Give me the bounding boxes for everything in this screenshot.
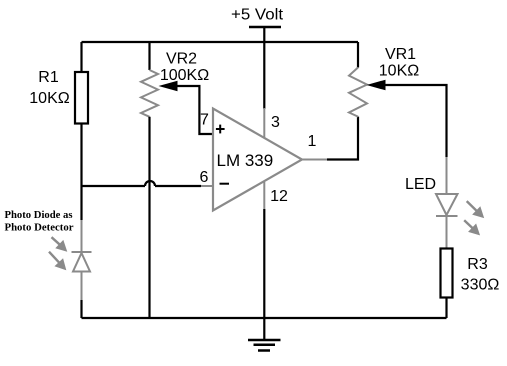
ground bar 3: [258, 349, 270, 352]
photo diode light arrow 2: [49, 252, 66, 270]
op-amp minus symbol: [220, 183, 230, 185]
wire photodiode to bottom rail: [80, 300, 82, 318]
pin 3 gray lead: [263, 108, 265, 138]
svg-text:VR2: VR2: [166, 51, 197, 68]
wire left vertical upper: [80, 42, 82, 72]
svg-text:R1: R1: [38, 69, 59, 86]
photo diode D1 cathode bar: [72, 251, 92, 253]
svg-text:100KΩ: 100KΩ: [160, 67, 209, 84]
wire bottom rail: [82, 317, 447, 319]
potentiometer VR1 zigzag: [349, 68, 367, 117]
svg-text:1: 1: [308, 133, 317, 150]
pin 12 gray lead: [263, 182, 265, 209]
LED D2 cathode bar: [436, 215, 458, 217]
LED anode gray lead: [446, 157, 448, 194]
wire +5V vertical to pin 3: [263, 27, 265, 109]
photo diode light arrow 1: [52, 237, 67, 251]
ground bar 2: [254, 344, 276, 347]
ground bar 1: [248, 339, 281, 342]
svg-text:7: 7: [200, 112, 209, 129]
svg-text:12: 12: [270, 188, 288, 205]
svg-text:330Ω: 330Ω: [461, 277, 500, 294]
svg-text:Photo Detector: Photo Detector: [5, 222, 74, 234]
op-amp U1 LM339 triangle: [213, 109, 302, 211]
wire VR2 bottom to bottom rail: [148, 117, 150, 318]
wire pin 6 hop over VR2 line: [145, 181, 155, 186]
svg-text:VR1: VR1: [385, 46, 416, 63]
wire top rail: [82, 41, 359, 43]
LED D2 triangle: [436, 194, 458, 215]
svg-text:R3: R3: [467, 256, 488, 273]
LED cathode gray lead: [446, 216, 448, 249]
resistor R1: [75, 72, 88, 124]
svg-text:10KΩ: 10KΩ: [379, 63, 419, 80]
potentiometer VR2 wiper arrow: [159, 81, 178, 92]
wire R1 bottom to photodiode: [80, 124, 82, 221]
svg-text:6: 6: [200, 169, 209, 186]
power +5 Volt bar: [249, 26, 281, 29]
svg-text:10KΩ: 10KΩ: [29, 90, 69, 107]
photo diode D1 triangle: [73, 253, 90, 272]
wire VR2 top stub: [148, 42, 150, 70]
wire VR1 wiper to LED: [384, 85, 447, 157]
wire photodiode cathode lead (gray): [81, 220, 83, 252]
wire output to VR1 bottom: [327, 117, 358, 160]
pin 1 output gray lead: [302, 159, 327, 161]
wire inverting input pin 6: [82, 185, 146, 187]
wire photodiode anode lead (gray): [81, 272, 83, 301]
svg-text:Photo Diode as: Photo Diode as: [5, 209, 74, 221]
potentiometer VR1 wiper arrow: [367, 80, 386, 91]
wire pin 12 to ground: [263, 209, 265, 340]
op-amp plus symbol: [216, 125, 225, 134]
svg-text:+5 Volt: +5 Volt: [231, 7, 284, 24]
LED light arrow 2: [464, 220, 479, 234]
svg-text:LM 339: LM 339: [217, 151, 274, 170]
wire VR2 wiper to pin 7 corner: [176, 86, 212, 134]
svg-text:3: 3: [271, 114, 280, 131]
wire R3 to bottom rail: [445, 298, 447, 319]
svg-text:LED: LED: [405, 176, 436, 193]
resistor R3: [441, 249, 453, 298]
LED light arrow 1: [467, 201, 484, 217]
wire VR1 top stub: [357, 42, 359, 68]
potentiometer VR2 zigzag: [141, 70, 158, 117]
pin 6 gray lead: [201, 185, 213, 187]
wire pin 6 hop to op-amp: [155, 185, 201, 187]
